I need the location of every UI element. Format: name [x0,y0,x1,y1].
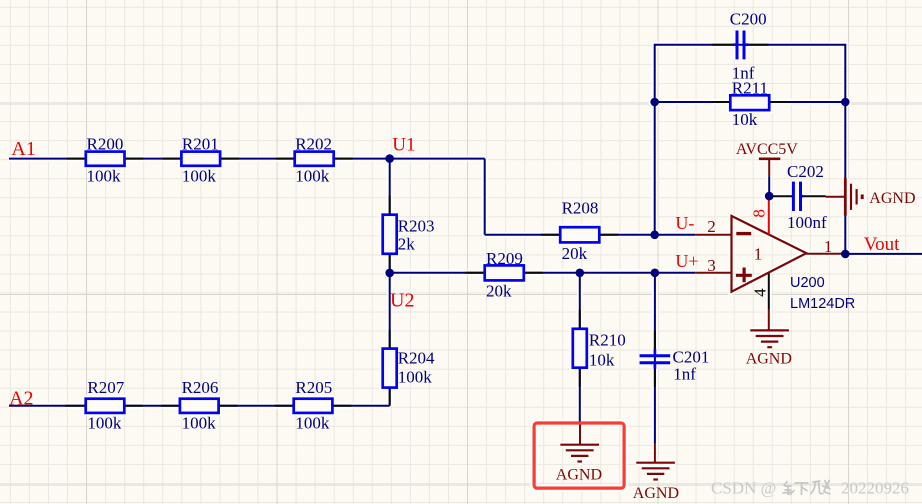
capacitor C202 [770,162,827,232]
svg-text:R204: R204 [398,349,435,368]
svg-text:3: 3 [707,256,716,275]
svg-text:U200: U200 [790,275,825,291]
pin 2 [695,217,731,236]
svg-text:100k: 100k [87,414,122,433]
op-amp U200 [732,216,856,312]
net label Vout [864,234,900,255]
svg-text:AVCC5V: AVCC5V [736,141,798,158]
svg-text:U1: U1 [392,135,415,156]
svg-text:100k: 100k [295,414,330,433]
wire A2 row [9,405,390,407]
net label U1 [392,135,415,156]
svg-text:LM124DR: LM124DR [790,296,855,312]
svg-text:100k: 100k [87,166,122,185]
resistor R200 [67,134,144,185]
wire R210 branch [579,273,581,422]
op-amp plus input mark [736,268,752,283]
svg-text:2: 2 [707,217,716,236]
pin 3 [695,256,731,275]
svg-text:A2: A2 [9,388,33,410]
svg-text:R200: R200 [87,134,124,153]
svg-text:8: 8 [749,209,768,218]
net label A2 [9,388,33,410]
wire U1 to U2 vertical [389,159,391,273]
junction node U2 [385,269,394,278]
svg-text:U2: U2 [390,290,414,312]
svg-text:1nf: 1nf [673,365,696,384]
svg-text:R201: R201 [182,134,219,153]
power port AGND below C201 [633,444,679,502]
capacitor C200 [712,10,768,83]
svg-text:U-: U- [675,213,694,233]
wire A1 row [9,158,485,160]
svg-text:R207: R207 [87,378,124,397]
power port AVCC5V [736,141,798,176]
junction node R211 right [841,98,850,107]
wire Vout [845,253,922,255]
resistor R204 [383,330,435,405]
svg-text:R206: R206 [182,378,219,397]
highlight red box around AGND [534,423,624,488]
svg-text:R208: R208 [562,198,599,217]
capacitor C201 [640,330,710,387]
resistor R208 [541,198,618,263]
pin 8 power [749,196,769,235]
svg-text:1: 1 [754,245,763,264]
net label U+ [675,251,698,271]
net label A1 [11,138,35,160]
svg-text:1: 1 [824,237,833,256]
wire AVCC5V stem [768,176,770,196]
resistor R211 [713,79,787,129]
svg-text:1nf: 1nf [732,64,755,83]
junction node R211 left [650,98,659,107]
svg-text:20k: 20k [562,244,588,263]
resistor R209 [466,249,543,301]
net label U- [675,213,694,233]
svg-text:R202: R202 [295,134,332,153]
resistor R203 [383,196,435,270]
junction node U+ C201 [651,269,660,278]
svg-text:AGND: AGND [633,485,679,502]
power port AGND below op-amp [746,310,792,368]
junction node U+ R210 [576,269,585,278]
svg-text:AGND: AGND [746,350,792,367]
svg-text:4: 4 [750,288,769,297]
resistor R205 [275,378,352,433]
svg-text:100k: 100k [182,414,217,433]
svg-text:AGND: AGND [556,466,602,483]
wire U1 feedback drop [484,159,486,235]
pin 4 ground [750,273,769,309]
wire U+ row [390,272,696,274]
svg-text:2k: 2k [398,234,416,253]
watermark CSDN [711,479,909,498]
svg-text:CSDN @: CSDN @ [711,479,776,498]
watermark chinese characters [783,480,831,495]
wire U- row [485,234,696,236]
svg-text:C200: C200 [730,10,767,29]
svg-text:20220926: 20220926 [841,479,909,498]
svg-text:AGND: AGND [869,190,915,207]
resistor R206 [161,378,238,433]
svg-text:C202: C202 [787,162,824,181]
svg-text:20k: 20k [486,282,512,301]
svg-text:R210: R210 [589,331,626,350]
svg-text:100nf: 100nf [787,213,827,232]
resistor R202 [276,134,353,185]
wire feedback top loop [655,45,846,254]
svg-text:10k: 10k [732,110,758,129]
junction node Vout [841,250,850,259]
pin 1 output [806,237,845,256]
junction node U1 [385,154,394,163]
power port AGND right of C202 [826,178,916,216]
svg-text:Vout: Vout [864,234,900,255]
svg-text:U+: U+ [675,251,698,271]
junction node U- [650,231,659,240]
svg-text:10k: 10k [589,351,615,370]
svg-text:R209: R209 [486,249,523,268]
svg-text:100k: 100k [182,166,217,185]
junction node pin8 AVCC [765,192,774,201]
resistor R201 [162,134,239,185]
wire R211 row [655,101,846,103]
net label U2 [390,290,414,312]
power port AGND below R210 [556,422,602,484]
svg-text:100k: 100k [295,166,330,185]
svg-text:A1: A1 [11,138,35,160]
wire U2 to A2 row vertical [389,273,391,406]
resistor R207 [65,378,143,433]
resistor R210 [573,310,626,387]
svg-text:100k: 100k [398,368,433,387]
op-amp minus input mark [736,232,751,235]
svg-text:R203: R203 [398,217,435,236]
svg-text:R205: R205 [295,378,332,397]
wire C201 branch [654,273,656,444]
